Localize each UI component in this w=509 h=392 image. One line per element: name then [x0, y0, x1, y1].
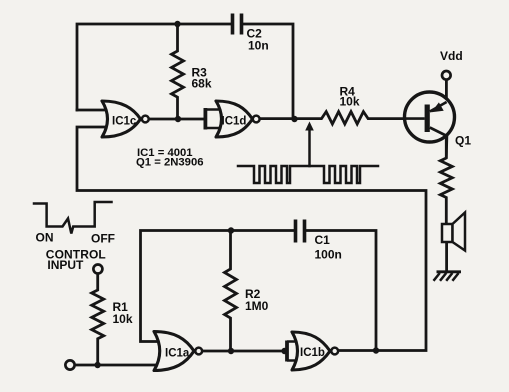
svg-text:10n: 10n [248, 39, 269, 53]
svg-text:Vdd: Vdd [440, 49, 463, 63]
svg-text:1M0: 1M0 [245, 299, 269, 313]
svg-text:Q1: Q1 [455, 134, 471, 148]
svg-text:C1: C1 [315, 233, 331, 247]
svg-text:IC1c: IC1c [112, 116, 137, 128]
svg-text:10k: 10k [113, 312, 133, 326]
svg-text:IC1d: IC1d [222, 116, 247, 128]
svg-text:IC1b: IC1b [300, 347, 325, 359]
svg-text:10k: 10k [340, 95, 360, 109]
svg-text:INPUT: INPUT [47, 258, 84, 272]
svg-text:Q1 = 2N3906: Q1 = 2N3906 [136, 157, 204, 169]
svg-text:IC1a: IC1a [165, 348, 190, 360]
svg-text:68k: 68k [192, 77, 212, 91]
svg-text:ON: ON [36, 231, 54, 245]
svg-text:100n: 100n [315, 248, 342, 262]
svg-text:OFF: OFF [91, 232, 115, 246]
